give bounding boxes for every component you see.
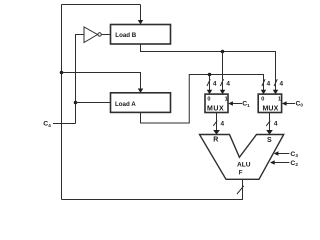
- arrowhead into ALU R: [213, 130, 220, 135]
- svg-text:ALU: ALU: [237, 161, 251, 168]
- wire MUX2 output to ALU S: [269, 113, 271, 131]
- arrowhead into Load A: [138, 89, 144, 93]
- arrowhead C0: [282, 101, 287, 105]
- node junction on left vertical: [60, 71, 64, 75]
- wire C0 select into MUX2: [286, 103, 295, 105]
- register Load B: [111, 25, 171, 45]
- alu body: [200, 135, 284, 180]
- svg-text:Load A: Load A: [115, 101, 136, 108]
- svg-text:C1: C1: [242, 101, 250, 108]
- bus slash MUX2 output: [266, 121, 270, 126]
- svg-text:S: S: [267, 137, 272, 144]
- svg-text:F: F: [239, 169, 243, 176]
- svg-text:0: 0: [261, 96, 264, 102]
- wire C2 into ALU: [275, 162, 290, 164]
- svg-text:C0: C0: [296, 100, 304, 107]
- arrowhead into Load B: [138, 20, 144, 24]
- svg-text:4: 4: [221, 121, 225, 128]
- inverter gate triangle: [84, 27, 98, 43]
- svg-text:C4: C4: [43, 121, 51, 128]
- wire branch to Load A top: [62, 73, 141, 89]
- node junction on C4 line to Load A: [74, 101, 78, 105]
- wire C4 horizontal: [53, 123, 76, 125]
- mux MUX1 box: [205, 94, 228, 112]
- svg-text:MUX: MUX: [207, 105, 224, 112]
- svg-text:C3: C3: [290, 151, 298, 158]
- bus slash MUX1 input0: [207, 79, 210, 86]
- wire C3 into ALU: [278, 153, 289, 155]
- svg-text:4: 4: [267, 80, 271, 87]
- wire to Load A load input: [76, 102, 111, 104]
- svg-text:Load B: Load B: [115, 32, 136, 39]
- svg-text:1: 1: [278, 96, 281, 102]
- svg-text:4: 4: [280, 80, 284, 87]
- arrowhead C3: [274, 151, 279, 155]
- mux MUX2 box: [258, 94, 281, 112]
- arrowhead B into MUX1 input1: [220, 90, 226, 94]
- bus slash MUX2 input1: [274, 79, 277, 86]
- wire B branch into MUX1 input1: [222, 52, 224, 91]
- bus slash MUX1 input1: [220, 79, 223, 86]
- arrowhead B into MUX2 input1: [273, 90, 279, 94]
- wire inverter output to Load B: [102, 34, 111, 36]
- svg-text:4: 4: [226, 80, 230, 87]
- wire feedback left vertical: [61, 5, 63, 200]
- node junction on A bus: [208, 73, 212, 77]
- svg-text:MUX: MUX: [263, 105, 279, 112]
- node junction on B bus: [221, 50, 225, 54]
- bus slash MUX1 output: [213, 121, 217, 126]
- arrowhead A into MUX1 input0: [207, 90, 213, 94]
- bus slash MUX2 input0: [262, 79, 265, 86]
- wire Load B output bus: [141, 44, 276, 90]
- arrowhead C2: [270, 160, 275, 164]
- wire bottom feedback from ALU F: [62, 179, 243, 199]
- svg-text:R: R: [213, 136, 218, 143]
- svg-text:4: 4: [213, 80, 217, 87]
- register Load A: [111, 93, 171, 113]
- arrowhead C1: [228, 101, 233, 105]
- svg-text:0: 0: [207, 96, 210, 102]
- wire MUX1 output to ALU R: [216, 113, 218, 131]
- wire into Load B top: [140, 5, 142, 21]
- wire A branch into MUX1 input0: [209, 75, 211, 91]
- svg-text:4: 4: [274, 121, 278, 128]
- arrowhead into ALU S: [266, 130, 273, 135]
- svg-text:1: 1: [225, 96, 228, 102]
- bus slash on F output: [237, 186, 244, 194]
- wire C1 select into MUX1: [233, 103, 243, 105]
- inverter bubble: [98, 33, 101, 36]
- svg-text:C2: C2: [290, 160, 298, 167]
- inverter gate input wire: [76, 35, 85, 124]
- arrowhead A into MUX2 input0: [261, 90, 267, 94]
- wire Load A output bus: [141, 75, 264, 124]
- wire feedback top horizontal: [62, 4, 141, 6]
